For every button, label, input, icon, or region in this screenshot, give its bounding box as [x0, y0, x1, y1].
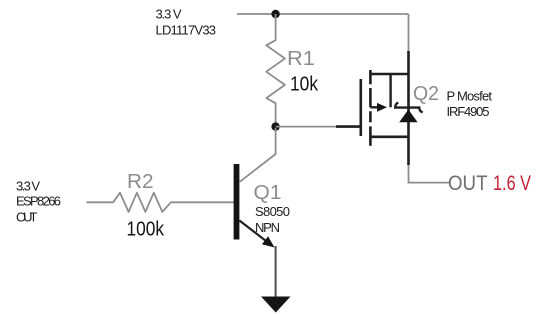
- Q2 source stub: [370, 73, 408, 76]
- svg-text:OUT: OUT: [448, 172, 488, 195]
- Q2 body tie vertical: [389, 74, 391, 107]
- svg-text:OUT: OUT: [16, 210, 38, 225]
- net label 3.3V ESP8266 OUT: [16, 179, 61, 225]
- Q2 gate plate: [359, 79, 362, 136]
- diode Q2 body diode: [395, 103, 422, 123]
- transistor Q1 base bar: [234, 164, 240, 240]
- node junction rail/R1: [271, 10, 279, 18]
- svg-text:Q2: Q2: [413, 83, 439, 105]
- svg-text:1.6 V: 1.6 V: [493, 172, 531, 195]
- Q2 channel dashes: [369, 70, 372, 146]
- ground: [261, 297, 291, 313]
- transistor Q1 emitter: [239, 221, 274, 248]
- Q2 source-drain lead: [407, 51, 410, 165]
- value P Mosfet IRF4905: [447, 89, 493, 120]
- value S8050 NPN: [255, 204, 290, 235]
- svg-text:S8050: S8050: [255, 204, 290, 219]
- svg-text:100k: 100k: [127, 219, 165, 241]
- svg-text:Q1: Q1: [254, 182, 282, 204]
- Q2 body arrowhead: [377, 103, 387, 112]
- mosfet Q2: [336, 51, 409, 165]
- wire emitter to ground: [275, 246, 277, 297]
- emitter arrowhead: [262, 236, 275, 247]
- wire gate net: [276, 126, 338, 128]
- resistor R2: [87, 193, 234, 212]
- Q2 body stub: [370, 106, 378, 108]
- svg-text:IRF4905: IRF4905: [447, 104, 490, 119]
- svg-text:10k: 10k: [290, 74, 319, 96]
- svg-text:R1: R1: [287, 48, 315, 70]
- wire Q1 collector: [240, 128, 276, 182]
- wire Q2 drain vertical top: [408, 14, 410, 51]
- resistor R1: [266, 14, 285, 123]
- wire top 3.3V rail: [237, 13, 409, 15]
- svg-text:3.3 V: 3.3 V: [16, 179, 40, 194]
- svg-text:R2: R2: [127, 171, 154, 193]
- diode anode triangle: [399, 110, 417, 123]
- svg-text:NPN: NPN: [255, 220, 280, 235]
- svg-text:3.3 V: 3.3 V: [156, 7, 182, 22]
- svg-text:P Mosfet: P Mosfet: [447, 89, 493, 104]
- diode cathode bar: [395, 103, 422, 113]
- wire Q2 drain to OUT: [409, 165, 450, 183]
- Q2 gate lead: [336, 125, 360, 128]
- svg-text:ESP8266: ESP8266: [16, 194, 61, 209]
- net label 3.3V LD1117V33: [156, 7, 217, 38]
- svg-text:LD1117V33: LD1117V33: [156, 23, 217, 38]
- node junction R1/gate/Q1: [271, 122, 279, 130]
- emitter line: [239, 221, 268, 243]
- Q2 drain stub: [370, 136, 408, 139]
